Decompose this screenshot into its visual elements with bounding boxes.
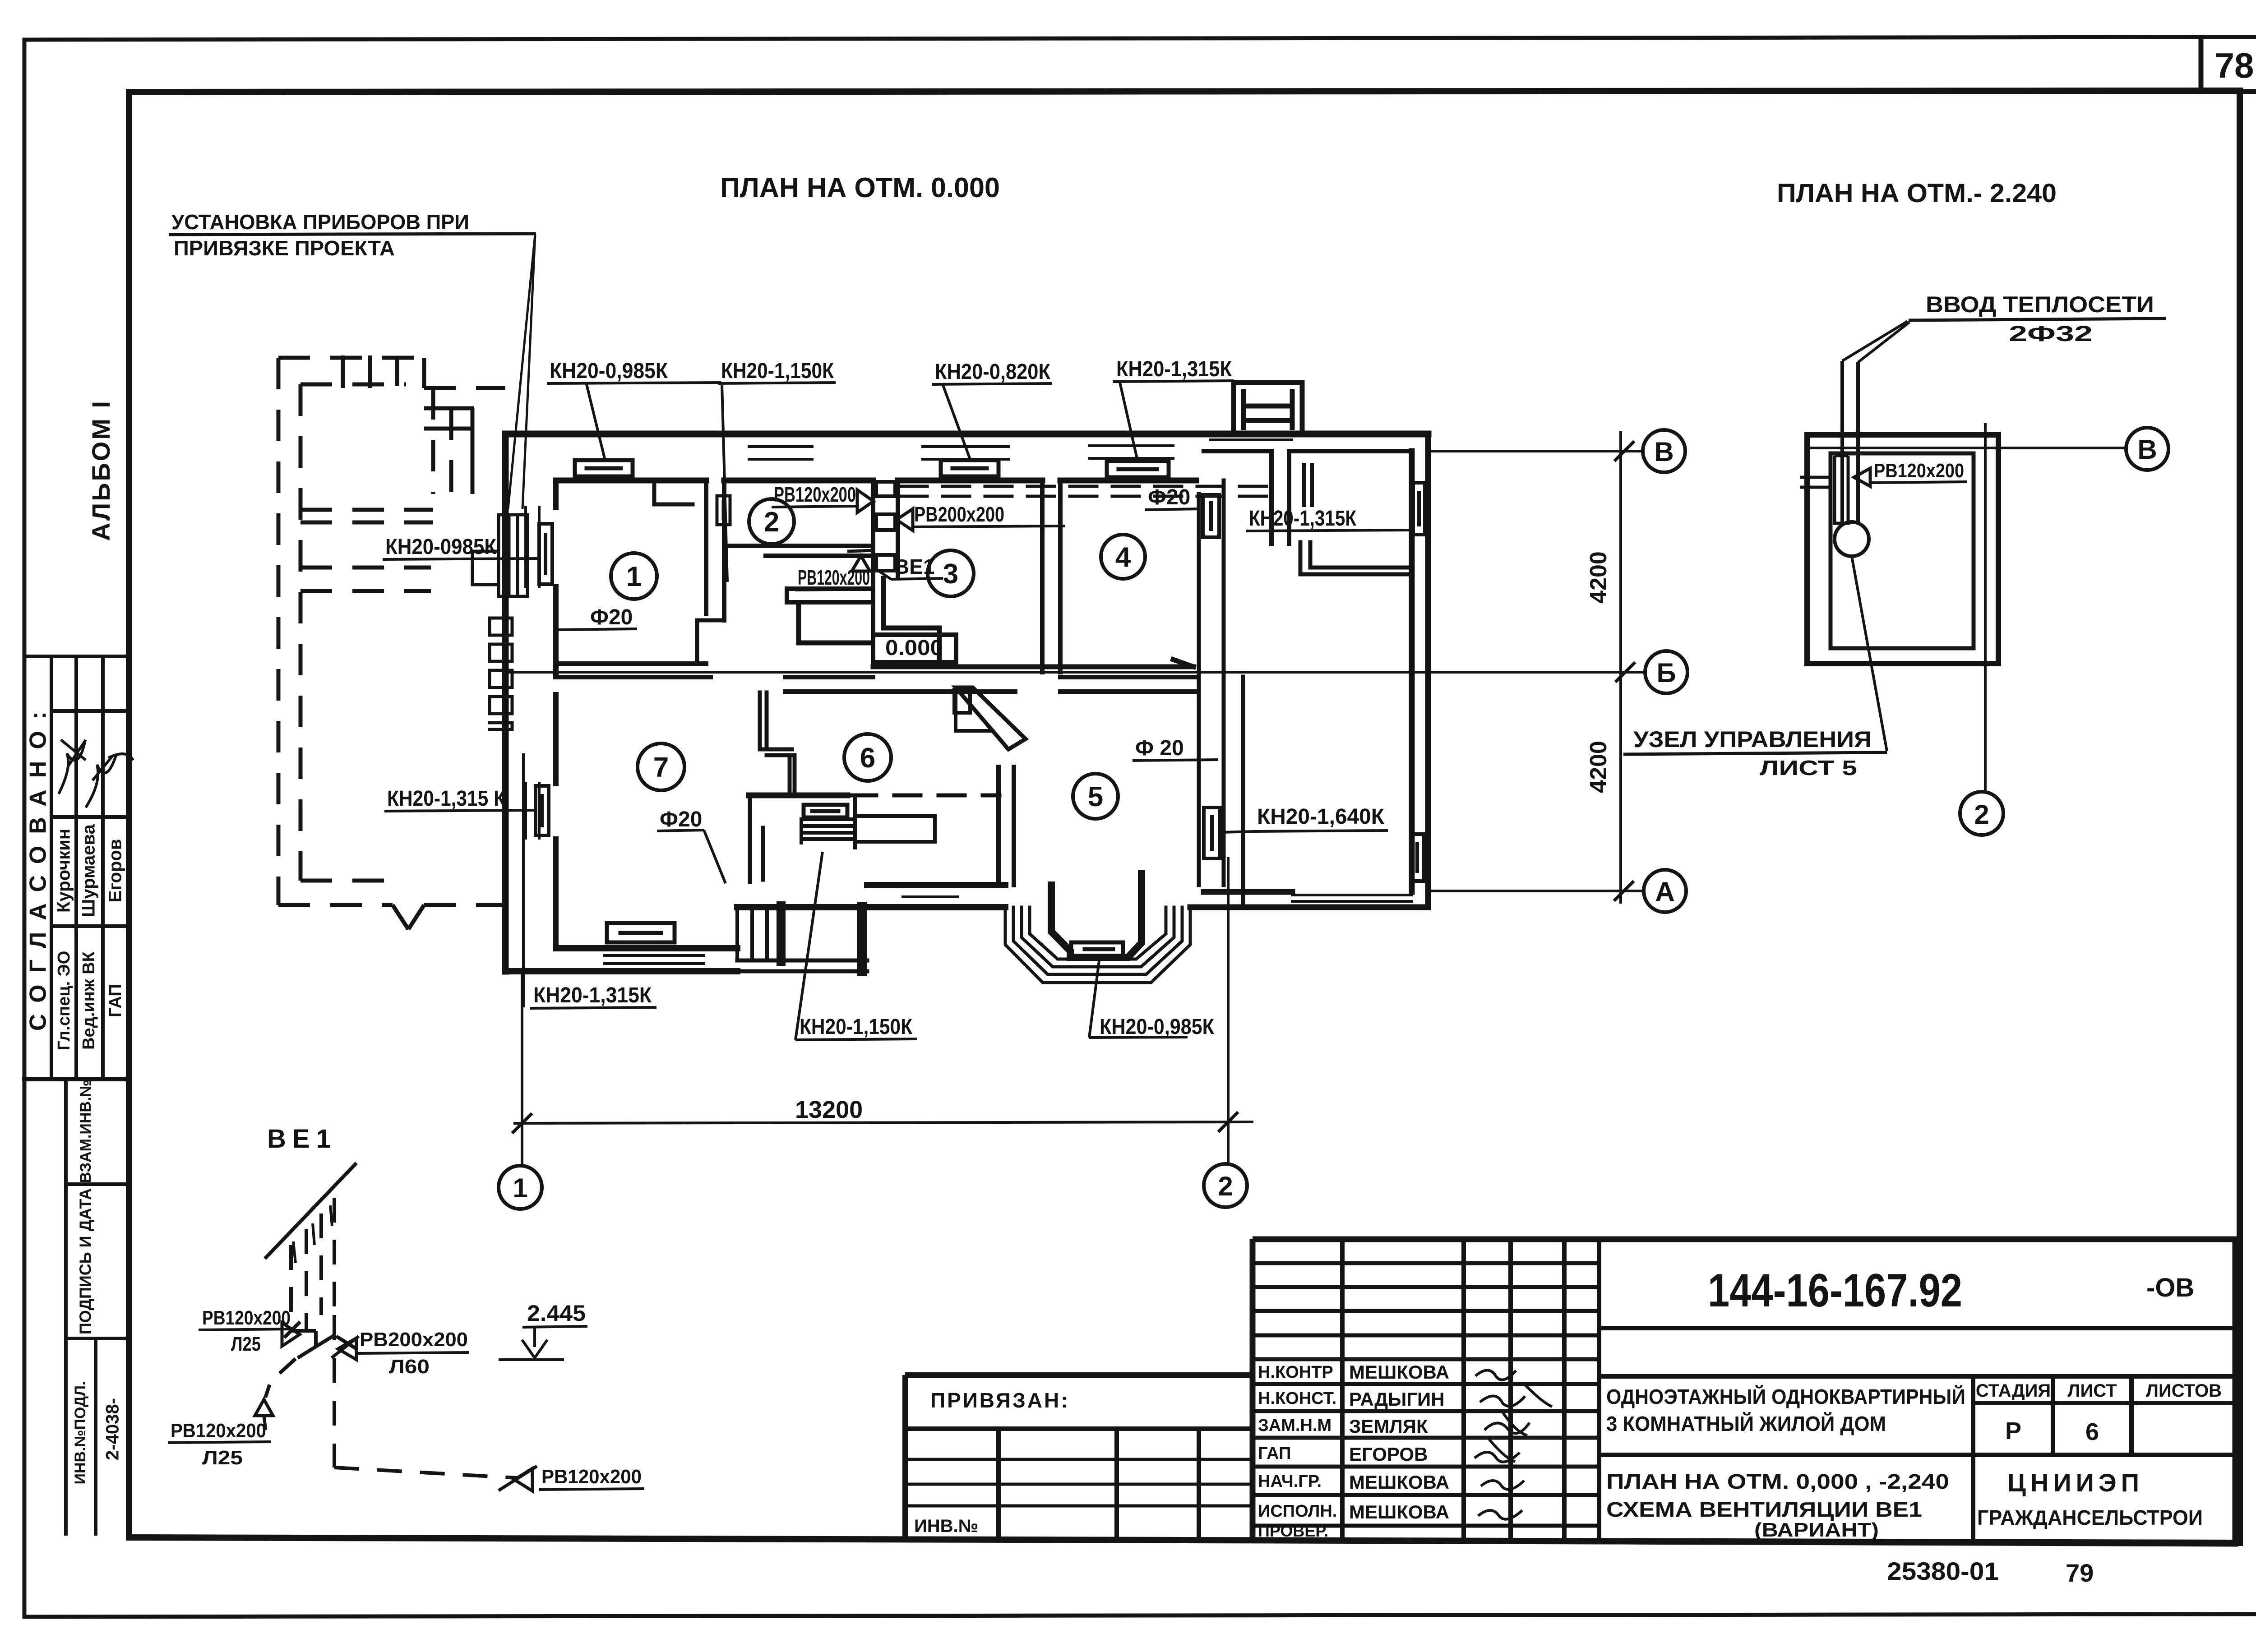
svg-text:ПРОВЕР.: ПРОВЕР.: [1258, 1522, 1328, 1540]
axis line B: [505, 671, 1645, 674]
second bath wall: [787, 589, 873, 602]
svg-text:Б: Б: [1656, 658, 1676, 688]
svg-text:УЗЕЛ УПРАВЛЕНИЯ: УЗЕЛ УПРАВЛЕНИЯ: [1633, 727, 1872, 752]
pump leader to uzel: [1852, 556, 1887, 751]
bottom wall left section: [505, 948, 737, 971]
basement inner wall: [1831, 453, 1974, 648]
basement grid2 line: [1984, 423, 1987, 791]
svg-text:Н.КОНТР: Н.КОНТР: [1258, 1363, 1333, 1382]
svg-text:4: 4: [1115, 542, 1131, 573]
svg-text:Ф20: Ф20: [1148, 485, 1190, 509]
VE1 end valve: [499, 1466, 537, 1491]
radiator bottom-left wall: [607, 923, 675, 942]
room circle 5: [1073, 774, 1118, 819]
svg-text:Л25: Л25: [202, 1447, 243, 1469]
titleblock upper rows: [1253, 1263, 1599, 1359]
vertical dimension line right: [1619, 431, 1622, 904]
room circle 4: [1101, 535, 1145, 579]
svg-text:ЗЕМЛЯК: ЗЕМЛЯК: [1349, 1416, 1428, 1437]
svg-text:ПРИВЯЗАН:: ПРИВЯЗАН:: [930, 1389, 1070, 1412]
plan pipe labels: [383, 357, 1411, 1040]
titleblock right horizontals: [1599, 1328, 2235, 1455]
svg-text:РВ200х200: РВ200х200: [914, 503, 1004, 526]
svg-text:А: А: [1655, 877, 1674, 907]
svg-text:ПЛАН НА ОТМ.- 2.240: ПЛАН НА ОТМ.- 2.240: [1777, 179, 2057, 208]
shaft boxes: [876, 482, 895, 571]
svg-text:РАДЫГИН: РАДЫГИН: [1349, 1389, 1445, 1410]
svg-text:Л25: Л25: [231, 1333, 261, 1355]
svg-text:144-16-167.92: 144-16-167.92: [1708, 1264, 1962, 1317]
sidebar divider top: [24, 655, 129, 658]
sidebar lower cells: [66, 1079, 129, 1534]
svg-text:ЗАМ.Н.М: ЗАМ.Н.М: [1258, 1416, 1331, 1435]
svg-text:КН20-0,985К: КН20-0,985К: [550, 359, 668, 383]
arrow left to shaft: [897, 509, 913, 531]
heat inlet pipes: [1842, 361, 1858, 522]
svg-text:ГАП: ГАП: [1258, 1444, 1291, 1463]
VE1 dashed drop left: [265, 1359, 296, 1398]
svg-text:ВЗАМ.ИНВ.№: ВЗАМ.ИНВ.№: [77, 1080, 94, 1183]
svg-text:РВ120х200: РВ120х200: [798, 566, 870, 589]
svg-text:1: 1: [626, 561, 642, 592]
level mark line: [873, 660, 1193, 667]
VE1 long dashed run: [334, 1315, 517, 1478]
svg-text:(ВАРИАНТ): (ВАРИАНТ): [1754, 1519, 1879, 1541]
svg-text:РВ120х200: РВ120х200: [202, 1307, 291, 1329]
basement grid circle 2: [1960, 792, 2003, 835]
svg-text:78: 78: [2215, 46, 2254, 85]
terrace stair: [801, 798, 935, 848]
svg-text:ГРАЖДАНСЕЛЬСТРОИ: ГРАЖДАНСЕЛЬСТРОИ: [1977, 1506, 2203, 1529]
svg-text:6: 6: [860, 743, 875, 774]
svg-text:КН20-0,820К: КН20-0,820К: [935, 360, 1051, 384]
room circle 1: [611, 553, 657, 599]
room circle 7: [638, 743, 684, 790]
radiator top wall room1: [575, 460, 633, 476]
svg-text:7: 7: [653, 752, 669, 783]
radiator interior wall room5: [1204, 808, 1220, 858]
svg-text:РВ120х200: РВ120х200: [1874, 460, 1964, 482]
svg-text:ЕГОРОВ: ЕГОРОВ: [1349, 1444, 1428, 1465]
house left exterior wall: [502, 434, 509, 971]
grid circle 2: [1204, 1164, 1247, 1207]
radiator right wall lower: [1411, 834, 1424, 881]
svg-text:4200: 4200: [1586, 551, 1612, 604]
svg-text:6: 6: [2085, 1418, 2099, 1445]
svg-text:МЕШКОВА: МЕШКОВА: [1349, 1501, 1449, 1523]
room circle 2: [749, 499, 794, 544]
terrace walls: [749, 793, 847, 798]
svg-text:Ф20: Ф20: [660, 808, 702, 831]
top wall window lines: [749, 440, 1292, 459]
basement axis V line: [1809, 447, 2126, 449]
svg-text:Гл.спец. ЭО: Гл.спец. ЭО: [55, 951, 74, 1051]
bottom wall right of bay: [1190, 892, 1428, 907]
svg-text:КН20-1,150К: КН20-1,150К: [721, 359, 834, 383]
VE1 roof line: [265, 1163, 356, 1259]
svg-text:1: 1: [513, 1173, 527, 1203]
heat duct stub left: [1800, 477, 1831, 487]
svg-text:2-4038-: 2-4038-: [103, 1398, 123, 1460]
svg-text:2Ф32: 2Ф32: [2009, 322, 2093, 346]
partition room7-6: [760, 692, 767, 749]
svg-text:Л60: Л60: [389, 1356, 430, 1378]
svg-text:5: 5: [1088, 781, 1103, 812]
right section bottom window: [1292, 895, 1412, 901]
sidebar soglasovano grid: [24, 1077, 129, 1081]
basement outer wall: [1807, 435, 1998, 664]
svg-text:КН20-1,315К: КН20-1,315К: [533, 983, 652, 1007]
svg-text:В: В: [2137, 434, 2157, 465]
svg-text:ОДНОЭТАЖНЫЙ ОДНОКВАРТИРНЫЙ: ОДНОЭТАЖНЫЙ ОДНОКВАРТИРНЫЙ: [1606, 1385, 1965, 1408]
svg-text:РВ120х200: РВ120х200: [774, 483, 856, 506]
grid circle 1: [499, 1166, 542, 1209]
VE1 duct risers dashed: [291, 1198, 334, 1331]
bottom wall middle section: [737, 885, 1005, 907]
svg-text:ЦНИИЭП: ЦНИИЭП: [2007, 1468, 2144, 1497]
privyazan block frame: [905, 1375, 1253, 1539]
bathroom wall room2 bottom: [724, 546, 873, 556]
svg-text:КН20-1,315К: КН20-1,315К: [1116, 357, 1232, 381]
grid line 1: [521, 972, 523, 1166]
svg-text:ГАП: ГАП: [106, 984, 125, 1017]
svg-text:Р: Р: [2005, 1417, 2021, 1444]
axis line A: [1431, 890, 1644, 892]
axis line V: [1428, 450, 1643, 452]
svg-text:79: 79: [2066, 1559, 2094, 1587]
svg-text:ЛИСТ: ЛИСТ: [2067, 1381, 2117, 1401]
svg-text:ЛИСТОВ: ЛИСТОВ: [2146, 1381, 2222, 1401]
veranda wall: [1271, 451, 1289, 544]
svg-text:КН20-0985К: КН20-0985К: [385, 535, 497, 559]
svg-text:ПЛАН НА ОТМ. 0.000: ПЛАН НА ОТМ. 0.000: [720, 172, 1000, 203]
svg-text:РВ200х200: РВ200х200: [360, 1329, 468, 1351]
entry stub wall room1: [654, 480, 693, 504]
radiator left wall upper: [539, 524, 552, 584]
partition room3-4: [1042, 480, 1060, 672]
svg-text:ВЕ1: ВЕ1: [267, 1124, 337, 1154]
svg-text:ПРИВЯЗКЕ ПРОЕКТА: ПРИВЯЗКЕ ПРОЕКТА: [174, 236, 395, 260]
titleblock outer frame: [1253, 1239, 2235, 1544]
svg-text:3: 3: [943, 558, 958, 590]
svg-text:ВВОД ТЕПЛОСЕТИ: ВВОД ТЕПЛОСЕТИ: [1926, 292, 2154, 317]
svg-text:4200: 4200: [1586, 741, 1612, 793]
partition room1-2: [706, 480, 724, 620]
interior wall right of rooms4-5: [1199, 480, 1243, 904]
svg-text:ПОДПИСЬ И ДАТА: ПОДПИСЬ И ДАТА: [76, 1188, 95, 1334]
svg-text:Шурмаева: Шурмаева: [79, 824, 99, 917]
svg-text:СТАДИЯ: СТАДИЯ: [1976, 1381, 2051, 1401]
svg-text:НАЧ.ГР.: НАЧ.ГР.: [1258, 1472, 1322, 1491]
note ustanovka priborov: [169, 210, 536, 509]
basement axis circle V: [2126, 428, 2168, 470]
svg-text:РВ120х200: РВ120х200: [171, 1420, 266, 1442]
mid wall hall: [785, 677, 1015, 692]
svg-text:КН20-1,640К: КН20-1,640К: [1257, 805, 1385, 829]
pump circle: [1835, 522, 1869, 556]
bottom dimension line 13200: [513, 1122, 1253, 1123]
svg-text:13200: 13200: [795, 1096, 863, 1123]
left wall window lines: [526, 507, 539, 838]
svg-text:Ф20: Ф20: [590, 605, 633, 629]
axis circle B: [1645, 651, 1687, 693]
radiator porch wall: [804, 805, 847, 817]
svg-text:Вед.инж ВК: Вед.инж ВК: [79, 951, 98, 1050]
arrow right to shaft: [857, 490, 874, 512]
svg-text:КН20-1,315 К: КН20-1,315 К: [387, 787, 506, 811]
dashed ceiling duct rooms3-4: [900, 486, 1270, 496]
svg-text:Курочкин: Курочкин: [54, 829, 74, 913]
svg-text:Ф 20: Ф 20: [1135, 736, 1184, 760]
svg-text:Н.КОНСТ.: Н.КОНСТ.: [1258, 1389, 1336, 1408]
svg-text:2: 2: [764, 507, 779, 538]
titleblock main verticals: [1342, 1239, 1599, 1542]
svg-text:СОГЛАСОВАНО:: СОГЛАСОВАНО:: [25, 700, 51, 1031]
svg-text:МЕШКОВА: МЕШКОВА: [1349, 1472, 1449, 1493]
partition room6-5: [999, 767, 1014, 885]
bay radiator: [1071, 942, 1123, 956]
room circle 6: [844, 734, 891, 781]
axis circle A: [1644, 870, 1686, 912]
mid wall room1: [556, 664, 711, 677]
svg-text:В: В: [1654, 437, 1674, 467]
veranda small room door wall: [1304, 465, 1312, 505]
svg-text:МЕШКОВА: МЕШКОВА: [1349, 1361, 1449, 1383]
sheet number box 78: [2201, 38, 2256, 92]
bay window steps: [1005, 907, 1190, 983]
stadia list columns: [1973, 1376, 2131, 1543]
mid wall room4 bottom: [1060, 677, 1196, 692]
svg-text:Егоров: Егоров: [106, 839, 125, 903]
svg-text:0.000: 0.000: [885, 636, 943, 660]
svg-text:2: 2: [1974, 799, 1989, 830]
svg-text:ИСПОЛН.: ИСПОЛН.: [1258, 1502, 1337, 1521]
mid wall jog at partition: [697, 620, 724, 664]
shaft in basement: [1833, 456, 1850, 523]
svg-text:СХЕМА ВЕНТИЛЯЦИИ ВЕ1: СХЕМА ВЕНТИЛЯЦИИ ВЕ1: [1606, 1498, 1922, 1521]
radiator interior wall room4: [1203, 495, 1219, 537]
svg-text:ПЛАН НА ОТМ. 0,000 , -2,240: ПЛАН НА ОТМ. 0,000 , -2,240: [1606, 1470, 1949, 1493]
note leader lines: [508, 234, 535, 509]
sidebar signatures: [59, 740, 86, 794]
radiator top wall room3: [941, 460, 999, 476]
kitchen corner fireplace: [956, 688, 1026, 749]
svg-text:-ОВ: -ОВ: [2146, 1273, 2194, 1302]
VE1 junction detail: [284, 1322, 316, 1358]
svg-text:КН20-1,315К: КН20-1,315К: [1249, 507, 1357, 531]
porch steps: [737, 907, 767, 960]
svg-text:3 КОМНАТНЫЙ ЖИЛОЙ ДОМ: 3 КОМНАТНЫЙ ЖИЛОЙ ДОМ: [1606, 1412, 1886, 1435]
bay window walls room5: [1051, 873, 1142, 957]
signatures column: [1475, 1371, 1516, 1380]
radiator top wall room4: [1107, 461, 1169, 477]
arrow RV120x200 basement: [1854, 468, 1870, 486]
radiator right wall upper: [1413, 483, 1425, 535]
svg-text:2: 2: [1218, 1171, 1233, 1201]
svg-text:25380-01: 25380-01: [1887, 1557, 1999, 1585]
svg-text:РВ120х200: РВ120х200: [541, 1466, 642, 1488]
vent grille on partition: [717, 496, 730, 525]
veranda closet walls: [1300, 542, 1412, 574]
privyazan grid: [905, 1426, 1253, 1431]
dashed garage outline left: [278, 358, 505, 929]
arrow up shaft: [847, 550, 874, 571]
house top exterior wall: [505, 431, 1428, 438]
svg-text:КН20-1,150К: КН20-1,150К: [800, 1015, 913, 1039]
svg-text:2.445: 2.445: [527, 1301, 586, 1326]
room circle 3: [928, 550, 974, 596]
chimney ladder left wall: [490, 618, 512, 729]
vent channels on left wall: [499, 515, 527, 596]
svg-text:ЛИСТ 5: ЛИСТ 5: [1760, 756, 1857, 780]
level mark box 0.000: [873, 635, 956, 662]
svg-text:АЛЬБОМ I: АЛЬБОМ I: [87, 399, 115, 541]
svg-text:ВЕ1: ВЕ1: [894, 555, 934, 578]
axis circle V: [499, 430, 1687, 1209]
duct run below shaft: [799, 578, 939, 660]
svg-text:ИНВ.№ПОДЛ.: ИНВ.№ПОДЛ.: [72, 1381, 89, 1485]
house right exterior wall: [1412, 434, 1428, 907]
radiator left wall lower: [536, 786, 549, 835]
titleblock name rows: [1253, 1384, 1599, 1526]
chimney stack above top wall: [1234, 383, 1302, 430]
duct shaft wall rooms2-3: [873, 480, 898, 645]
svg-text:ИНВ.№: ИНВ.№: [914, 1516, 978, 1536]
bottom-left window: [605, 955, 704, 964]
garage top solid details: [343, 355, 474, 494]
svg-text:КН20-0,985К: КН20-0,985К: [1100, 1015, 1215, 1039]
grid line 2: [1227, 857, 1230, 1164]
svg-text:УСТАНОВКА ПРИБОРОВ ПРИ: УСТАНОВКА ПРИБОРОВ ПРИ: [171, 210, 469, 234]
